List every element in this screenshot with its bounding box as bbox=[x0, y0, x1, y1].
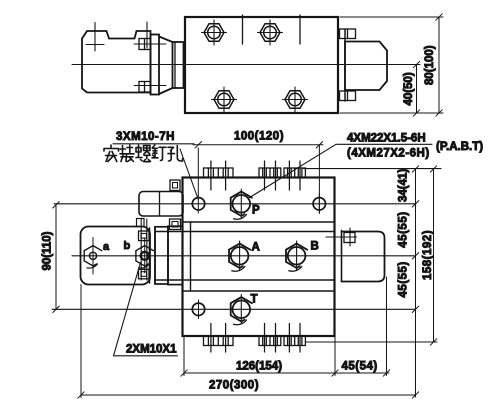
cross mark 1 (top view) bbox=[86, 23, 104, 52]
solenoid front body 1 bbox=[155, 227, 168, 284]
svg-text:40(50): 40(50) bbox=[403, 72, 415, 105]
svg-text:2XM10X1: 2XM10X1 bbox=[126, 344, 177, 356]
svg-text:3XM10-7H: 3XM10-7H bbox=[116, 131, 175, 143]
solenoid taper top-view bbox=[159, 37, 173, 95]
screw hole top-right bbox=[313, 198, 325, 210]
bottom right extension line bbox=[306, 341, 438, 343]
bottom stud nuts group 3 bbox=[284, 324, 305, 353]
stud flag above hole b bbox=[137, 219, 145, 227]
solenoid cylinder top-view bbox=[173, 42, 184, 88]
body interior line 3 bbox=[155, 279, 335, 281]
tick line 2 (top view body) bbox=[299, 15, 301, 44]
top stud nuts group 3 bbox=[284, 161, 305, 190]
solenoid front body 2 bbox=[168, 226, 183, 284]
leader to port P bbox=[248, 144, 336, 198]
cross mark 2 (top view) bbox=[146, 22, 148, 48]
cap bolt bottom bbox=[170, 219, 181, 230]
label 安装螺钉孔 (drawn strokes) bbox=[104, 145, 183, 162]
svg-text:P: P bbox=[252, 205, 260, 217]
cap bolt top bbox=[170, 180, 180, 191]
centerline of top view bbox=[72, 64, 420, 66]
port T bbox=[231, 295, 252, 325]
svg-text:T: T bbox=[251, 294, 258, 306]
leader to hole b bbox=[114, 263, 141, 356]
dimension 158(192) line bbox=[430, 166, 436, 345]
bottom dimension line 126(154)/45(54) bbox=[181, 277, 390, 376]
solenoid cylinder inner line bbox=[174, 42, 176, 88]
T level centerline bbox=[52, 308, 416, 310]
svg-text:100(120): 100(120) bbox=[234, 131, 284, 143]
bolt centerline top (top view) bbox=[134, 43, 166, 45]
dimension 40(50) bbox=[413, 61, 419, 116]
P level centerline bbox=[54, 203, 416, 205]
svg-text:34(41): 34(41) bbox=[398, 169, 410, 202]
svg-text:45(55): 45(55) bbox=[398, 211, 410, 247]
body interior vertical bbox=[190, 222, 192, 291]
svg-text:45(55): 45(55) bbox=[398, 261, 410, 297]
svg-text:(P.A.B.T): (P.A.B.T) bbox=[436, 141, 483, 153]
hole b bbox=[136, 238, 154, 273]
solenoid front bolt bottom bbox=[139, 269, 150, 279]
body interior line 1 bbox=[183, 221, 335, 223]
port B bbox=[286, 241, 307, 271]
solenoid body top-view outline bbox=[82, 31, 151, 93]
svg-text:a: a bbox=[103, 241, 110, 253]
right flange plate line (top view) bbox=[344, 29, 346, 101]
hex bolt top-view 4 bbox=[283, 87, 308, 112]
dimension 80(100) bbox=[340, 14, 443, 116]
hex bolt top-view 1 bbox=[202, 20, 227, 45]
top stud nuts group 1 bbox=[204, 161, 234, 190]
solenoid bolt bottom (top view) bbox=[139, 82, 151, 93]
body interior line 4 bbox=[183, 290, 335, 292]
solenoid bolt top (top view) bbox=[139, 39, 151, 50]
screw hole bottom-left bbox=[192, 303, 204, 315]
svg-text:270(300): 270(300) bbox=[209, 380, 259, 392]
right chain dimension line bbox=[412, 166, 418, 397]
svg-text:45(54): 45(54) bbox=[342, 361, 378, 373]
screw hole top-left bbox=[192, 198, 204, 210]
svg-text:90(110): 90(110) bbox=[42, 231, 54, 270]
hex bolt top-view 3 bbox=[212, 87, 237, 112]
top right extension line bbox=[304, 168, 442, 170]
tick line 1 (top view body) bbox=[242, 15, 244, 44]
AB level centerline bbox=[72, 255, 416, 257]
bracket plate bbox=[81, 227, 151, 285]
valve body front view bbox=[183, 178, 335, 337]
right flange bolt bottom (top view) bbox=[340, 91, 356, 101]
cap at P level left bbox=[139, 192, 183, 217]
right flange bolt top (top view) bbox=[340, 29, 356, 39]
solenoid flange top-view bbox=[151, 35, 160, 95]
port P bbox=[231, 189, 252, 219]
bottom dimension line 270(300) bbox=[78, 285, 419, 399]
port A bbox=[229, 241, 250, 271]
svg-text:B: B bbox=[311, 241, 319, 253]
body interior line 2 bbox=[155, 231, 335, 233]
leader to top-left screw hole bbox=[180, 149, 198, 200]
bottom stud nuts group 2 bbox=[259, 324, 281, 353]
valve body top-view bbox=[185, 17, 338, 113]
svg-text:80(100): 80(100) bbox=[424, 45, 436, 85]
plug bolt bbox=[344, 233, 355, 243]
svg-text:126(154): 126(154) bbox=[236, 361, 282, 373]
hole a bbox=[84, 238, 102, 275]
svg-text:158(192): 158(192) bbox=[422, 230, 434, 280]
solenoid front flange bbox=[150, 228, 156, 284]
dimension 90(110) bbox=[53, 202, 59, 313]
top stud nuts group 2 bbox=[259, 161, 281, 190]
right plug front view bbox=[341, 231, 343, 282]
stud lines through hole b bbox=[141, 219, 147, 280]
svg-text:b: b bbox=[124, 240, 131, 252]
solenoid front bolt top bbox=[139, 231, 150, 241]
hex bolt top-view 2 bbox=[258, 20, 283, 45]
svg-text:A: A bbox=[252, 242, 260, 254]
plug top-view right bbox=[345, 42, 387, 91]
bolt centerline bottom (top view) bbox=[134, 85, 166, 87]
bottom stud nuts group 1 bbox=[204, 324, 234, 353]
dimension 100(120) bbox=[193, 142, 323, 213]
svg-text:(4XM27X2-6H): (4XM27X2-6H) bbox=[347, 148, 430, 160]
svg-text:4XM22X1.5-6H: 4XM22X1.5-6H bbox=[347, 133, 426, 145]
